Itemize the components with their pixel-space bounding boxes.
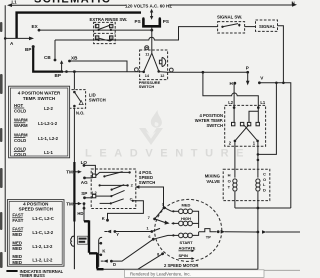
svg-text:L1-C, L2-2: L1-C, L2-2	[32, 230, 53, 235]
arrow Y	[107, 230, 112, 233]
wire neutral top right	[169, 4, 293, 6]
svg-text:SWITCH: SWITCH	[89, 98, 106, 103]
wire signal sw to signal	[245, 26, 256, 28]
wire V row	[259, 83, 290, 208]
speed switch box	[91, 169, 136, 209]
svg-text:SIGNAL: SIGNAL	[259, 24, 276, 29]
svg-text:K: K	[102, 249, 105, 254]
node H dot	[233, 82, 236, 85]
wire Y to motor 1	[115, 231, 152, 233]
svg-text:START: START	[180, 240, 194, 245]
temp switch arm 1	[244, 125, 258, 141]
node motor 6 dot	[152, 238, 155, 241]
node valve bottom dot	[257, 207, 260, 210]
wire thick L1 feed bus	[17, 13, 141, 39]
wire 2 terminal to motor 3	[139, 187, 164, 207]
motor arm 6 to START contact	[153, 235, 168, 239]
svg-text:L1-L2-1-2: L1-L2-1-2	[38, 121, 58, 126]
extra rinse arm 4-5	[99, 38, 111, 41]
svg-text:PS: PS	[163, 19, 169, 24]
node B junction dot	[150, 29, 153, 32]
svg-text:P: P	[246, 65, 249, 70]
node BP2 dot	[65, 70, 68, 73]
node L1 dot	[257, 106, 260, 109]
wire left border vertical	[4, 5, 6, 252]
node L1 arrowhead	[7, 3, 12, 7]
temp switch inner link	[249, 111, 258, 122]
wire cold node down to TP row	[257, 208, 259, 269]
svg-text:TEMP. SWITCH: TEMP. SWITCH	[23, 96, 55, 101]
bottom watermark bar	[125, 270, 301, 278]
svg-text:SIGNAL SW.: SIGNAL SW.	[217, 15, 242, 20]
svg-text:SWITCH: SWITCH	[139, 180, 156, 185]
extra rinse switch box	[94, 22, 116, 43]
svg-text:EX: EX	[32, 24, 39, 29]
node L2 dot	[233, 106, 236, 109]
arrow P down	[247, 74, 249, 82]
svg-text:MED: MED	[12, 254, 22, 259]
speed switch table box	[7, 200, 64, 267]
wire TM2 drop to thick bus	[83, 204, 85, 222]
wire hot coil to bottom	[234, 192, 236, 208]
speed switch contact L1	[92, 174, 95, 177]
speed switch arm 2	[112, 185, 125, 190]
node 14 dot	[142, 71, 145, 74]
svg-text:WARM: WARM	[14, 132, 28, 137]
node lid drop dot	[73, 70, 76, 73]
temp switch L1 drop	[257, 108, 259, 123]
water temp switch box	[225, 105, 266, 146]
wire H to L2	[233, 83, 235, 107]
svg-text:LO: LO	[81, 160, 88, 165]
svg-text:AG: AG	[81, 180, 88, 185]
svg-text:120 VOLTS A.C. 60 HZ: 120 VOLTS A.C. 60 HZ	[125, 3, 172, 8]
wire valve bottom to N	[235, 207, 291, 209]
motor arm 1 to contact	[152, 228, 160, 231]
svg-text:2: 2	[110, 25, 112, 29]
svg-text:L1-C, L2-C: L1-C, L2-C	[32, 216, 54, 221]
svg-text:HIGH: HIGH	[181, 216, 191, 221]
node motor 8 dot	[161, 252, 164, 255]
node P end dot	[246, 71, 249, 74]
node V branch dot	[275, 82, 278, 85]
svg-text:L2: L2	[92, 190, 97, 195]
svg-text:L1-2, L2-2: L1-2, L2-2	[32, 258, 53, 263]
wire P column to L1	[203, 72, 258, 107]
terminal circle on 14 wire	[135, 68, 139, 72]
motor arm 3-7	[155, 208, 164, 219]
svg-text:VALVE: VALVE	[206, 179, 220, 184]
wire lid switch drop	[73, 72, 75, 90]
node P junction dot	[202, 71, 205, 74]
node A arrowhead	[29, 37, 34, 41]
START winding entry	[168, 234, 179, 236]
arrow TM2	[73, 202, 76, 205]
svg-text:COLD: COLD	[14, 146, 26, 151]
svg-text:BP: BP	[55, 73, 61, 78]
wire bottom bus	[103, 268, 258, 270]
legend internal timer buss	[6, 270, 17, 272]
contact hook column	[99, 237, 102, 267]
svg-text:L1: L1	[92, 170, 97, 175]
speed switch arm 1	[104, 172, 122, 177]
svg-text:L1-1: L1-1	[44, 150, 53, 155]
svg-text:SPIN: SPIN	[179, 253, 188, 258]
node TP dot	[217, 230, 220, 233]
wire XB drop	[70, 61, 128, 72]
extra rinse arm 1-2	[99, 25, 110, 29]
hot solenoid coil	[233, 179, 237, 183]
node Y dot	[114, 230, 117, 233]
motor arm 3 to MED contact	[164, 208, 172, 212]
node 2 dot	[234, 140, 237, 143]
node K2 dots	[100, 242, 103, 245]
svg-text:H: H	[228, 172, 231, 177]
wire 8 diagonal to bottom bus	[138, 254, 163, 269]
node HD dot	[83, 207, 86, 210]
wire cold coil to bottom	[257, 192, 259, 208]
arrow TP	[221, 230, 226, 234]
mixing valve box	[223, 169, 270, 200]
temp switch L2 drop	[233, 108, 235, 123]
svg-text:L1-1, L2-2: L1-1, L2-2	[38, 136, 59, 141]
svg-text:D: D	[113, 262, 116, 267]
node V dot	[258, 81, 261, 84]
svg-text:Rendered by LeadVenture, Inc.: Rendered by LeadVenture, Inc.	[130, 272, 191, 277]
HIGH winding	[179, 221, 184, 226]
svg-text:AGITATE: AGITATE	[179, 245, 196, 250]
node EX dot	[38, 29, 41, 32]
svg-text:C: C	[130, 196, 133, 201]
svg-text:MED: MED	[12, 246, 22, 251]
node SP stub	[85, 197, 93, 199]
plug arrow to 120V	[151, 12, 153, 18]
node N arrowhead	[292, 3, 297, 7]
wire CB drop	[54, 40, 56, 60]
MED winding	[179, 209, 184, 214]
speed switch rail C	[100, 202, 111, 204]
node motor 7 dot	[153, 218, 156, 221]
svg-text:PS: PS	[135, 19, 141, 24]
svg-text:SWITCH: SWITCH	[206, 123, 223, 128]
wire V branch to cold node	[258, 83, 277, 155]
wire PS 14 to BP bus	[63, 71, 144, 73]
node CB dot	[54, 59, 57, 62]
arrow D	[103, 259, 108, 262]
tables	[6, 86, 69, 278]
node motor 1 dot	[150, 230, 153, 233]
svg-text:N: N	[292, 0, 295, 5]
svg-text:BP: BP	[25, 47, 31, 52]
pressure switch box	[140, 50, 168, 80]
MED winding entry contact	[172, 210, 179, 212]
watermark text LEADVENTURE	[85, 148, 251, 160]
water temp table box	[9, 86, 70, 158]
motor arm 7 to HIGH contact	[155, 219, 166, 223]
svg-text:TP: TP	[206, 235, 211, 240]
speed switch contact L2	[92, 194, 95, 197]
speed switch rail 3	[96, 195, 112, 197]
lid switch contacts	[73, 91, 76, 94]
speed switch arm 3	[111, 190, 124, 196]
wire plug to pressure switch	[151, 28, 153, 50]
svg-text:MED: MED	[12, 260, 22, 265]
arrow TP continue right	[262, 230, 267, 234]
wire extra rinse row2 with hop	[55, 27, 218, 40]
svg-text:COLD: COLD	[14, 152, 26, 157]
node K dot	[106, 219, 109, 222]
svg-text:EXTRA RINSE SW.: EXTRA RINSE SW.	[90, 17, 128, 22]
power plug PS bracket	[143, 19, 159, 27]
svg-text:COLD: COLD	[14, 108, 26, 113]
extra rinse contact 1	[95, 24, 98, 27]
node motor 3 dot	[163, 206, 166, 209]
wire 2 to hot valve	[234, 141, 236, 178]
svg-text:MED: MED	[12, 232, 22, 237]
svg-text:MED: MED	[12, 240, 22, 245]
svg-text:L1: L1	[12, 0, 18, 5]
arrow stub up on BP bus	[61, 63, 63, 72]
watermark logo	[139, 110, 163, 145]
motor right bus	[192, 211, 198, 228]
svg-text:HOT: HOT	[14, 103, 23, 108]
svg-text:K: K	[102, 216, 105, 221]
svg-text:XB: XB	[71, 56, 78, 61]
node TP junction dot	[257, 231, 260, 234]
svg-text:O: O	[263, 177, 266, 182]
terminal circle on 12 wire	[169, 68, 173, 72]
svg-text:SWITCH: SWITCH	[139, 84, 155, 89]
wire PS 12 row	[159, 71, 248, 74]
svg-text:5: 5	[110, 36, 112, 40]
node AG stub	[85, 177, 93, 179]
arrow TM1	[73, 170, 76, 173]
svg-text:N.O.: N.O.	[76, 111, 84, 116]
wire EX row	[39, 29, 152, 31]
signal switch box	[218, 22, 245, 33]
svg-text:TM: TM	[66, 201, 73, 206]
node BP dot	[32, 45, 35, 48]
timer motor label box	[78, 236, 88, 244]
wire signal to V column	[278, 26, 284, 83]
svg-text:L1-2, L2-2: L1-2, L2-2	[32, 244, 53, 249]
pressure switch terminal circle 11	[145, 46, 149, 50]
svg-text:2 SPEED MOTOR: 2 SPEED MOTOR	[164, 263, 198, 268]
lid switch box	[68, 90, 86, 109]
lid switch arm	[74, 92, 80, 102]
svg-text:SPEED SWITCH: SPEED SWITCH	[19, 206, 53, 211]
START winding	[179, 233, 184, 238]
svg-text:WARM: WARM	[14, 123, 28, 128]
pressure switch pivot	[151, 50, 153, 53]
svg-text:1: 1	[96, 25, 98, 29]
timer buss vertical thick	[73, 162, 75, 222]
svg-text:MED: MED	[182, 203, 191, 208]
timer motor coil	[71, 236, 75, 246]
svg-text:FAST: FAST	[12, 218, 23, 223]
svg-text:L2-2: L2-2	[44, 106, 53, 111]
svg-text:COLD: COLD	[14, 138, 26, 143]
temp switch contact squares	[232, 122, 235, 125]
svg-text:HD: HD	[77, 211, 83, 216]
pressure switch arm to 12	[152, 53, 159, 71]
pressure switch diaphragm	[162, 57, 166, 66]
wire node A stub	[5, 37, 29, 39]
svg-text:Y: Y	[116, 232, 119, 237]
wire BP thick	[32, 47, 63, 72]
power plug terminal caps	[142, 17, 144, 19]
wire C to K	[108, 201, 144, 219]
node 1 dot	[256, 140, 259, 143]
motor dashed circle	[155, 199, 222, 261]
title sliver cut at top	[34, 0, 111, 5]
wire lid switch to timer buss	[73, 108, 75, 163]
svg-text:SP: SP	[81, 191, 87, 196]
node 12 dot	[157, 70, 160, 73]
svg-text:WARM: WARM	[14, 118, 28, 123]
svg-text:O: O	[228, 178, 231, 183]
svg-text:12: 12	[160, 74, 164, 78]
signal buzzer box	[256, 20, 278, 31]
temp switch arm 2	[235, 125, 249, 141]
wire TP to right	[225, 231, 258, 233]
svg-text:LEADVENTURE: LEADVENTURE	[85, 148, 251, 160]
node XB dot	[68, 60, 71, 63]
wire L1 top line	[9, 4, 127, 6]
extra rinse contact 2	[110, 24, 113, 27]
HIGH winding entry	[172, 222, 179, 224]
speed switch rail 2	[100, 184, 128, 186]
wire 1 to cold valve	[257, 141, 259, 178]
node cold top dot	[257, 153, 260, 156]
svg-text:FAST: FAST	[12, 213, 23, 218]
svg-text:L2: L2	[228, 100, 234, 105]
speed switch rail 1	[96, 172, 130, 175]
node D dot	[110, 260, 113, 263]
signal switch contacts	[221, 26, 223, 28]
svg-text:TM: TM	[66, 170, 73, 175]
pressure switch arm to 14	[144, 53, 152, 71]
svg-text:C: C	[263, 171, 266, 176]
svg-text:TIMER BUSS: TIMER BUSS	[20, 273, 46, 278]
svg-text:CB: CB	[44, 55, 51, 60]
node A junction dot	[4, 37, 7, 40]
cold solenoid coil	[256, 179, 260, 183]
svg-text:4 POSITION WATER: 4 POSITION WATER	[18, 90, 61, 95]
node LO dot and wire to speed switch	[84, 165, 95, 172]
scan smudges left edge	[0, 22, 3, 268]
svg-text:4: 4	[96, 36, 98, 40]
svg-text:L1: L1	[260, 100, 266, 105]
extra rinse contact 5	[110, 36, 113, 39]
svg-text:11: 11	[145, 52, 149, 56]
TP thermal protector	[199, 229, 217, 232]
svg-text:D: D	[263, 188, 266, 193]
extra rinse contact 4	[95, 36, 98, 39]
wire D row and diagonal to 6	[111, 239, 153, 261]
svg-text:FAST: FAST	[12, 226, 23, 231]
